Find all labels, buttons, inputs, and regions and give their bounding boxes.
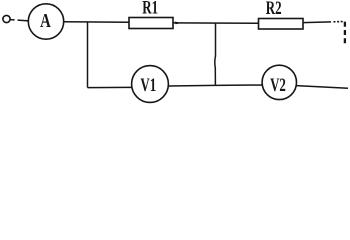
svg-text:A: A xyxy=(40,8,51,31)
terminal (input) xyxy=(3,15,10,22)
wire V1 to J2 xyxy=(168,84,215,87)
svg-text:R2: R2 xyxy=(266,0,282,18)
voltmeter V1 circle xyxy=(132,66,169,103)
svg-text:V1: V1 xyxy=(140,76,156,96)
voltmeter V2 circle xyxy=(262,65,296,99)
wire R2 to right corner (partly dotted) xyxy=(303,21,331,24)
node junction J2 xyxy=(214,23,217,86)
wire J2 to V2 xyxy=(215,84,262,86)
wire terminal to ammeter xyxy=(10,20,28,21)
resistor R2 xyxy=(259,19,304,30)
wire R1 to R2 xyxy=(173,22,259,24)
wire ammeter to R1 xyxy=(64,21,129,24)
svg-text:V2: V2 xyxy=(270,76,286,96)
wire bottom-left to V1 xyxy=(88,86,133,88)
svg-text:R1: R1 xyxy=(142,0,158,18)
resistor R1 xyxy=(129,18,173,29)
ammeter U1 circle xyxy=(28,4,63,39)
node junction J1 xyxy=(87,22,89,88)
wire R1 right arrow artifact xyxy=(175,22,179,24)
wire dashed continuation down (cut off) xyxy=(344,22,346,45)
wire V2 to right edge xyxy=(296,86,348,89)
